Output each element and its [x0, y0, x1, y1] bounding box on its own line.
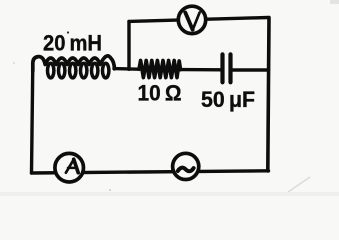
faint streak bottom-right [288, 177, 310, 192]
capacitor C1 left plate [220, 54, 224, 82]
inductor L1 loop turns [48, 63, 109, 78]
resistor R1 zigzag [139, 61, 181, 78]
wire left vertical [32, 65, 33, 173]
wire inductor to resistor [114, 67, 139, 71]
wire voltmeter loop top [129, 18, 269, 22]
wire resistor to capacitor [181, 68, 223, 72]
voltmeter U1 circle [178, 6, 205, 33]
voltmeter letter V [185, 13, 199, 30]
wire capacitor to right vertical [231, 68, 269, 71]
wire voltmeter loop left vertical [127, 21, 130, 69]
inductor L1 coil humps [33, 56, 115, 71]
wire right vertical [268, 18, 269, 172]
svg-text:10 Ω: 10 Ω [138, 80, 182, 105]
scan shading bottom edge [0, 192, 339, 196]
AC source U3 circle [173, 153, 199, 179]
ammeter letter A [66, 159, 78, 173]
faint speck bottom [109, 189, 111, 191]
speck dot above label [67, 31, 69, 33]
wire bottom [32, 171, 269, 173]
speck top-right [330, 0, 339, 4]
capacitor C1 right plate [228, 54, 232, 82]
AC source tilde symbol [178, 168, 194, 172]
svg-text:20 mH: 20 mH [43, 31, 102, 56]
faint speck left [13, 62, 15, 64]
ammeter U2 circle [55, 153, 84, 182]
svg-text:50 μF: 50 μF [201, 87, 255, 112]
